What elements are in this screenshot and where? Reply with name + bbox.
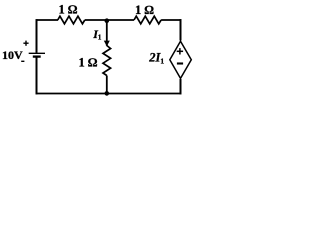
node A top junction dot	[105, 18, 110, 23]
voltage source V1 battery long plate	[29, 52, 45, 54]
svg-text:1 Ω: 1 Ω	[59, 2, 78, 16]
svg-text:1 Ω: 1 Ω	[135, 3, 154, 17]
battery plus sign	[23, 41, 28, 46]
battery minus sign	[21, 60, 24, 62]
voltage source V1 battery short plate	[33, 55, 41, 57]
wire middle upper (dot to resistor)	[106, 20, 108, 46]
wire right upper (corner to diamond)	[180, 19, 182, 40]
wire bottom segment	[36, 93, 182, 95]
svg-text:2I1: 2I1	[148, 51, 164, 66]
wire top-middle segment	[85, 19, 134, 21]
resistor R1 1ohm top-left	[58, 16, 85, 24]
minus sign inside diamond	[177, 62, 183, 64]
node B bottom junction dot	[105, 91, 110, 96]
wire middle lower (resistor to bottom)	[106, 76, 108, 95]
svg-text:I1: I1	[92, 27, 102, 42]
wire left lower (battery to corner)	[36, 57, 38, 95]
wire right lower (diamond to corner)	[180, 79, 182, 94]
svg-text:1 Ω: 1 Ω	[79, 55, 98, 69]
svg-text:10V: 10V	[2, 48, 23, 62]
current arrow I1 head	[104, 41, 110, 47]
dependent source U1 diamond	[170, 41, 192, 78]
resistor R2 1ohm top-right	[134, 16, 161, 24]
plus sign inside diamond	[177, 48, 183, 54]
wire top-left segment	[37, 19, 59, 21]
wire left upper (corner to battery)	[36, 19, 38, 53]
wire top-right segment	[161, 19, 181, 21]
resistor R3 1ohm middle vertical	[103, 46, 111, 76]
